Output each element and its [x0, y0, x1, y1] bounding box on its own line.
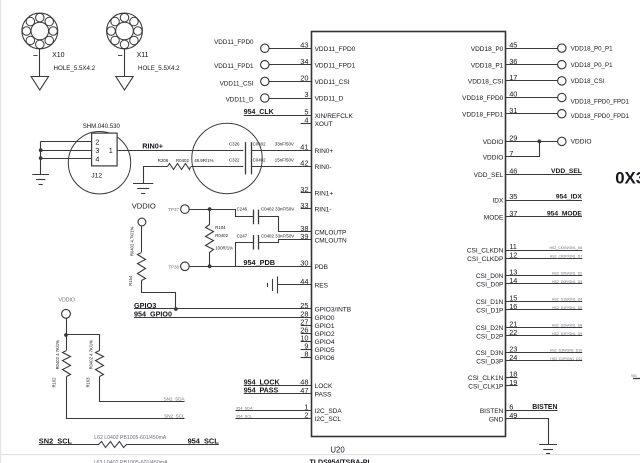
svg-text:VDDIO: VDDIO	[483, 155, 504, 162]
svg-text:VDD11_CSI: VDD11_CSI	[315, 79, 350, 86]
svg-text:VDD18_P0_P1: VDD18_P0_P1	[571, 45, 614, 52]
svg-text:3: 3	[304, 90, 308, 99]
svg-text:RIN1-: RIN1-	[315, 206, 332, 213]
svg-text:954_IDX: 954_IDX	[556, 194, 583, 201]
terminal VDD11_FPD1	[261, 60, 269, 68]
svg-text:CSI_D3N: CSI_D3N	[476, 350, 504, 357]
svg-text:VDD18_FPD0: VDD18_FPD0	[462, 95, 504, 102]
wire net HS2_D1N/GN1_D4	[506, 301, 583, 303]
junction	[64, 333, 68, 337]
net stub at right edge	[633, 378, 640, 380]
wire VDD_SEL pin 46	[506, 174, 582, 176]
svg-text:VDD18_P0_P1: VDD18_P0_P1	[571, 62, 614, 69]
wire R162 to SN2_SCL	[67, 377, 185, 419]
svg-text:HS2_D2N/GN1_D8: HS2_D2N/GN1_D8	[552, 323, 582, 327]
X10 chassis arrow	[31, 77, 48, 91]
wire RES to pin 44	[277, 284, 311, 286]
svg-text:R0402 4.7K/1%: R0402 4.7K/1%	[55, 340, 60, 370]
svg-text:R163: R163	[85, 377, 90, 388]
wire C247 to pin 39	[259, 240, 312, 243]
svg-text:VDD18_P1: VDD18_P1	[471, 62, 504, 69]
terminal VDD18_FPD0_FPD1	[558, 110, 566, 118]
junction	[39, 156, 43, 160]
wire TP37 to C246	[190, 210, 254, 217]
svg-text:PDB: PDB	[315, 264, 328, 271]
svg-text:SN2_SDA: SN2_SDA	[164, 397, 186, 402]
svg-text:VDDIO: VDDIO	[483, 139, 504, 146]
svg-text:34: 34	[300, 57, 308, 66]
junction	[39, 148, 43, 152]
svg-text:R104: R104	[215, 225, 226, 230]
wire C326 to pin 41	[251, 150, 311, 152]
wire GPIO3 to pin 25	[134, 308, 312, 310]
terminal VDD11_D	[261, 94, 269, 102]
terminal VDD11_CSI	[261, 77, 269, 85]
svg-text:HS2_CK0N/GN1_D6: HS2_CK0N/GN1_D6	[550, 246, 583, 250]
wire L62 to 954_SCL	[126, 444, 219, 446]
svg-text:CSI_D0P: CSI_D0P	[476, 282, 503, 289]
wire 954_PASS to pin 47	[244, 393, 312, 395]
svg-text:HOLE_5.5X4.2: HOLE_5.5X4.2	[138, 65, 180, 72]
svg-text:HOLE_5.5X4.2: HOLE_5.5X4.2	[54, 65, 96, 72]
resistor R162	[63, 351, 71, 377]
inductor L62	[99, 442, 127, 448]
ground (RIN0- termination)	[133, 183, 153, 185]
junction	[538, 140, 542, 144]
svg-text:VDD18_CSI: VDD18_CSI	[571, 78, 605, 85]
terminal VDDIO	[62, 309, 71, 318]
pin 18 stub	[506, 377, 518, 379]
svg-text:GPIO3/INTB: GPIO3/INTB	[315, 307, 351, 314]
wire J12 pin 2 to ground bus	[41, 141, 92, 143]
terminal VDD18_P0_P1	[558, 44, 566, 52]
svg-text:C322: C322	[229, 157, 240, 162]
svg-text:PASS: PASS	[315, 391, 333, 398]
wire 954_SDA to pin 1	[236, 410, 312, 412]
svg-text:954: 954	[631, 374, 637, 378]
resistor R163	[96, 351, 104, 377]
svg-text:L62 L0402 PB1005-601/450mA: L62 L0402 PB1005-601/450mA	[94, 435, 167, 441]
wire RIN0+ from J12 pin 1 to C326	[117, 150, 243, 152]
svg-text:VDD11_D: VDD11_D	[315, 96, 344, 103]
svg-text:VDD18_FPD1: VDD18_FPD1	[462, 111, 504, 118]
wire 954_GPIO0 to pin 28	[134, 317, 312, 319]
wire VDD11_D to IC	[269, 98, 312, 100]
wire C246 to pin 38	[259, 217, 312, 232]
svg-text:R0402: R0402	[215, 233, 228, 238]
svg-text:I2C_SCL: I2C_SCL	[315, 416, 342, 423]
terminal VDD18_CSI	[558, 77, 566, 85]
svg-text:4: 4	[95, 155, 99, 164]
svg-text:R164: R164	[128, 275, 133, 286]
wire ground to R206	[144, 167, 168, 184]
terminal VDD18_FPD0_FPD1	[558, 93, 566, 101]
svg-text:6: 6	[509, 402, 513, 411]
svg-text:CSI_CLK1N: CSI_CLK1N	[468, 375, 504, 382]
wire 954_CLK to pin 5	[244, 115, 312, 117]
wire VDD11_FPD0 to IC	[269, 48, 312, 50]
X10 pin 1 wire	[39, 49, 41, 77]
wire net HS2_D0N/GN1_D2	[506, 275, 583, 277]
wire pin to terminal VDD18_FPD0_FPD1	[506, 113, 558, 115]
wire net HS2_D3N/GN1_D10	[506, 352, 583, 354]
svg-text:49.9R/1%: 49.9R/1%	[194, 158, 213, 163]
wire net HS2_D3P/GN1_D11	[506, 360, 583, 362]
svg-text:CSI_D1P: CSI_D1P	[476, 308, 503, 315]
svg-text:TP38: TP38	[168, 265, 179, 270]
svg-text:VDD_SEL: VDD_SEL	[551, 168, 582, 175]
svg-text:4: 4	[304, 116, 308, 125]
svg-text:VDD11_FPD0: VDD11_FPD0	[315, 46, 356, 53]
wire 954_MODE pin 37	[506, 216, 582, 218]
wire net HS2_D1P/GN1_D5	[506, 309, 583, 311]
wire BISTEN pin 6	[506, 410, 558, 412]
svg-text:X11: X11	[137, 52, 149, 59]
svg-text:C247: C247	[237, 233, 248, 238]
svg-text:LOCK: LOCK	[315, 383, 333, 390]
junction	[208, 264, 212, 268]
svg-text:HS2_D0N/GN1_D2: HS2_D0N/GN1_D2	[552, 272, 582, 276]
svg-text:CSI_D3P: CSI_D3P	[476, 359, 503, 366]
wire net HS2_D2P/GN1_D9	[506, 335, 583, 337]
svg-text:RES: RES	[315, 283, 329, 290]
svg-text:GPIO1: GPIO1	[315, 323, 335, 330]
svg-text:39: 39	[300, 232, 308, 241]
svg-text:CSI_D0N: CSI_D0N	[476, 273, 504, 280]
svg-text:CSI_CLKDP: CSI_CLKDP	[467, 256, 503, 263]
svg-text:VDD18_FPD0_FPD1: VDD18_FPD0_FPD1	[571, 98, 630, 105]
junction	[208, 207, 212, 211]
wire pin 29 VDDIO to terminal	[506, 141, 558, 143]
ground	[32, 174, 49, 176]
U20 pin 32 RIN1+	[301, 192, 312, 194]
wire 954_SCL to pin 2	[236, 418, 312, 420]
svg-text:GPIO2: GPIO2	[315, 331, 335, 338]
svg-text:R0402 4.7K/1%: R0402 4.7K/1%	[89, 340, 94, 370]
svg-text:RIN0-: RIN0-	[315, 164, 332, 171]
svg-text:BISTEN: BISTEN	[532, 404, 557, 411]
svg-text:35: 35	[509, 192, 517, 201]
ground bus wire	[40, 141, 42, 175]
ground	[539, 444, 557, 446]
svg-text:HS2_D3P/GN1_D11: HS2_D3P/GN1_D11	[550, 357, 582, 361]
deserializer U20	[312, 32, 506, 437]
wire net HS2_CK0P/GN1_D7	[506, 258, 583, 260]
svg-text:HS2_CK0P/GN1_D7: HS2_CK0P/GN1_D7	[550, 255, 583, 259]
svg-text:RIN0+: RIN0+	[142, 142, 163, 151]
svg-text:43: 43	[300, 41, 308, 50]
svg-text:100R/1%: 100R/1%	[215, 245, 233, 250]
svg-text:VDD11_CSI: VDD11_CSI	[220, 81, 254, 88]
terminal VDD11_FPD0	[261, 44, 269, 52]
svg-text:MODE: MODE	[484, 214, 504, 221]
AC-coupling highlight circle	[192, 123, 262, 193]
resistor R164	[141, 226, 143, 252]
svg-text:GPIO0: GPIO0	[315, 315, 335, 322]
svg-text:VDD11_D: VDD11_D	[226, 97, 254, 104]
svg-text:SN2_SCL: SN2_SCL	[164, 414, 185, 419]
svg-text:CMLOUTN: CMLOUTN	[315, 237, 347, 244]
wire R206 to C322	[191, 166, 243, 168]
svg-text:R206: R206	[158, 158, 169, 163]
svg-text:954_SCL: 954_SCL	[236, 414, 253, 419]
U20 pin 9 GPIO5	[301, 349, 312, 351]
svg-text:VDD11_FPD0: VDD11_FPD0	[214, 39, 254, 46]
svg-text:SHM.040.530: SHM.040.530	[83, 123, 121, 130]
svg-text:U20: U20	[330, 446, 345, 455]
wire 954_IDX pin 35	[506, 200, 582, 202]
svg-text:2: 2	[95, 137, 99, 146]
svg-text:954_SDA: 954_SDA	[236, 405, 253, 410]
svg-text:I2C_SDA: I2C_SDA	[315, 408, 343, 415]
svg-text:HS2_D1N/GN1_D4: HS2_D1N/GN1_D4	[552, 297, 582, 301]
svg-text:R0402 4.7K/1%: R0402 4.7K/1%	[130, 226, 135, 256]
svg-text:GPIO4: GPIO4	[315, 339, 335, 346]
wire pin to terminal VDD18_FPD0_FPD1	[506, 97, 558, 99]
svg-text:C0402 33nF/50V: C0402 33nF/50V	[261, 233, 294, 238]
svg-text:1: 1	[109, 146, 113, 155]
svg-text:RIN0+: RIN0+	[315, 148, 334, 155]
connector J12	[92, 133, 118, 166]
capacitor C326	[245, 142, 247, 158]
svg-text:HS2_D1P/GN1_D5: HS2_D1P/GN1_D5	[552, 306, 582, 310]
wire pin to terminal VDD18_P0_P1	[506, 64, 558, 66]
pin 19 stub	[506, 385, 518, 387]
X11 pin 1 wire	[124, 49, 126, 77]
svg-text:44: 44	[300, 277, 308, 286]
svg-text:C0402: C0402	[253, 157, 266, 162]
svg-text:VDD_SEL: VDD_SEL	[474, 172, 504, 179]
svg-text:42: 42	[300, 159, 308, 168]
wire to R163	[67, 335, 100, 351]
capacitor C322	[245, 158, 247, 174]
U20 pin 10 GPIO4	[301, 341, 312, 343]
resistor R206	[168, 164, 191, 170]
terminal VDDIO	[138, 218, 146, 226]
wire SN2_SCL to L62	[39, 444, 99, 446]
svg-text:R0402: R0402	[176, 158, 189, 163]
svg-text:47: 47	[300, 386, 308, 395]
svg-text:X10: X10	[52, 52, 65, 59]
X11 chassis arrow	[116, 77, 133, 91]
svg-text:954_PDB: 954_PDB	[243, 258, 275, 267]
connector J12 highlight circle	[68, 132, 130, 194]
svg-text:CMLOUTP: CMLOUTP	[315, 229, 347, 236]
svg-text:GPIO5: GPIO5	[315, 347, 335, 354]
svg-text:TLDS954/TSBA-PL: TLDS954/TSBA-PL	[310, 460, 373, 463]
svg-text:C326: C326	[229, 141, 240, 146]
svg-text:CSI_D1N: CSI_D1N	[476, 299, 504, 306]
svg-text:954_SCL: 954_SCL	[188, 436, 220, 445]
svg-text:VDD11_FPD1: VDD11_FPD1	[315, 62, 356, 69]
wire C322 to pin 42	[251, 166, 311, 168]
svg-text:15nF/50V: 15nF/50V	[275, 157, 294, 162]
wire pin to terminal VDD18_CSI	[506, 80, 558, 82]
svg-text:VDDIO: VDDIO	[132, 201, 156, 210]
svg-text:VDD18_FPD0_FPD1: VDD18_FPD0_FPD1	[571, 113, 630, 120]
svg-text:32: 32	[300, 185, 308, 194]
svg-text:C246: C246	[237, 207, 248, 212]
mounting hole X10	[22, 13, 58, 49]
svg-text:R162: R162	[52, 377, 57, 388]
wire R163 to SN2_SDA	[100, 377, 185, 402]
svg-text:GND: GND	[489, 417, 504, 424]
wire 954_LOCK to pin 48	[244, 385, 312, 387]
svg-text:IDX: IDX	[492, 198, 504, 205]
wire R164 to GPIO3	[142, 281, 176, 309]
junction	[174, 307, 178, 311]
wire VDD11_FPD1 to IC	[269, 64, 312, 66]
svg-text:TP37: TP37	[168, 207, 179, 212]
mounting hole X11	[107, 13, 143, 49]
svg-text:XIN/REFCLK: XIN/REFCLK	[315, 113, 354, 120]
wire net HS2_D0P/GN1_D3	[506, 283, 583, 285]
svg-text:CSI_D2P: CSI_D2P	[476, 334, 503, 341]
wire pin to terminal VDD18_P0_P1	[506, 48, 558, 50]
wire VDD11_CSI to IC	[269, 81, 312, 83]
wire J12 pin 3 to ground bus	[41, 150, 92, 152]
resistor R104	[209, 209, 211, 225]
U20 pin 8 GPIO6	[301, 357, 312, 359]
svg-text:CSI_D2N: CSI_D2N	[476, 325, 504, 332]
terminal VDD18_P0_P1	[558, 60, 566, 68]
svg-text:0X3: 0X3	[615, 169, 640, 188]
svg-text:2: 2	[304, 411, 308, 420]
wire VDDIO to pullups	[66, 318, 68, 350]
svg-text:30: 30	[300, 259, 308, 268]
svg-text:33: 33	[300, 201, 308, 210]
svg-text:CSI_CLK1P: CSI_CLK1P	[468, 384, 503, 391]
svg-text:954_GPIO0: 954_GPIO0	[134, 309, 172, 318]
wire net HS2_CK0N/GN1_D6	[506, 250, 583, 252]
svg-text:GPIO6: GPIO6	[315, 355, 335, 362]
capacitor C246	[253, 210, 255, 225]
svg-text:BISTEN: BISTEN	[480, 408, 504, 415]
svg-text:VDD18_P0: VDD18_P0	[471, 46, 504, 53]
wire net HS2_D2N/GN1_D8	[506, 327, 583, 329]
wire J12 pin 4 to ground bus	[41, 158, 92, 160]
svg-text:HS2_D2P/GN1_D9: HS2_D2P/GN1_D9	[552, 332, 582, 336]
svg-text:VDDIO: VDDIO	[571, 138, 592, 145]
svg-text:XOUT: XOUT	[315, 121, 333, 128]
svg-text:RIN1+: RIN1+	[315, 191, 334, 198]
svg-text:VDDIO: VDDIO	[59, 297, 75, 303]
U20 pin 33 RIN1-	[301, 208, 312, 210]
svg-text:VDD11_FPD1: VDD11_FPD1	[214, 63, 254, 70]
svg-text:VDD18_CSI: VDD18_CSI	[468, 79, 504, 86]
svg-text:33nF/50V: 33nF/50V	[275, 141, 294, 146]
wire TP38 / 954_PDB to pin 30	[189, 266, 311, 268]
svg-text:8: 8	[304, 350, 308, 359]
U20 pin 26 GPIO2	[301, 333, 312, 335]
RES termination symbol	[277, 277, 279, 294]
svg-text:20: 20	[300, 74, 308, 83]
capacitor C247	[253, 235, 255, 250]
svg-text:J12: J12	[91, 173, 102, 180]
wire GND pin 49	[506, 419, 549, 445]
U20 pin 27 GPIO1	[301, 325, 312, 327]
svg-text:CSI_CLKDN: CSI_CLKDN	[467, 248, 504, 255]
U20 pin 4 XOUT	[301, 123, 312, 125]
svg-text:HS2_D0P/GN1_D3: HS2_D0P/GN1_D3	[552, 280, 582, 284]
svg-text:41: 41	[300, 142, 308, 151]
wire C247 branch to TP38 net	[236, 243, 254, 267]
wire pin 7 VDDIO	[506, 142, 540, 157]
svg-text:HS2_D3N/GN1_D10: HS2_D3N/GN1_D10	[550, 348, 582, 352]
svg-text:C0402 33nF/50V: C0402 33nF/50V	[261, 207, 294, 212]
terminal VDDIO	[558, 137, 566, 145]
